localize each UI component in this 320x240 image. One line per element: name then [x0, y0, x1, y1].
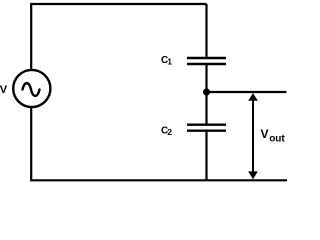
svg-text:2: 2 [167, 127, 172, 137]
AC voltage source V (circle) [13, 70, 50, 107]
wire: branch middle segment (C1 to C2 through node) [205, 65, 207, 124]
Vout measurement arrow (double-headed) [248, 93, 258, 179]
wire: branch top segment (top rail to C1) [205, 4, 207, 57]
svg-text:V: V [261, 127, 269, 141]
label C2 [161, 125, 172, 137]
svg-text:out: out [269, 134, 285, 145]
node: junction dot between C1 and C2 [203, 88, 210, 95]
label C1 [161, 55, 172, 67]
capacitor C1 top plate [187, 57, 226, 59]
capacitor C2 bottom plate [187, 129, 226, 131]
svg-text:V: V [0, 84, 8, 96]
capacitor C2 top plate [187, 123, 226, 125]
label Vout [261, 127, 286, 145]
AC source sine waveform [23, 83, 40, 96]
wire: left rail lower segment (source to bottom rail) [30, 107, 32, 181]
wire: bottom rail [31, 179, 287, 181]
wire: left rail upper segment (top rail to source) [30, 3, 32, 70]
wire: branch bottom segment (C2 to bottom rail) [205, 132, 207, 181]
wire: output tap from node to right edge [207, 91, 287, 93]
capacitor C1 bottom plate [187, 63, 226, 65]
wire: top rail from source to capacitor branch [31, 3, 206, 5]
svg-text:1: 1 [167, 57, 172, 67]
